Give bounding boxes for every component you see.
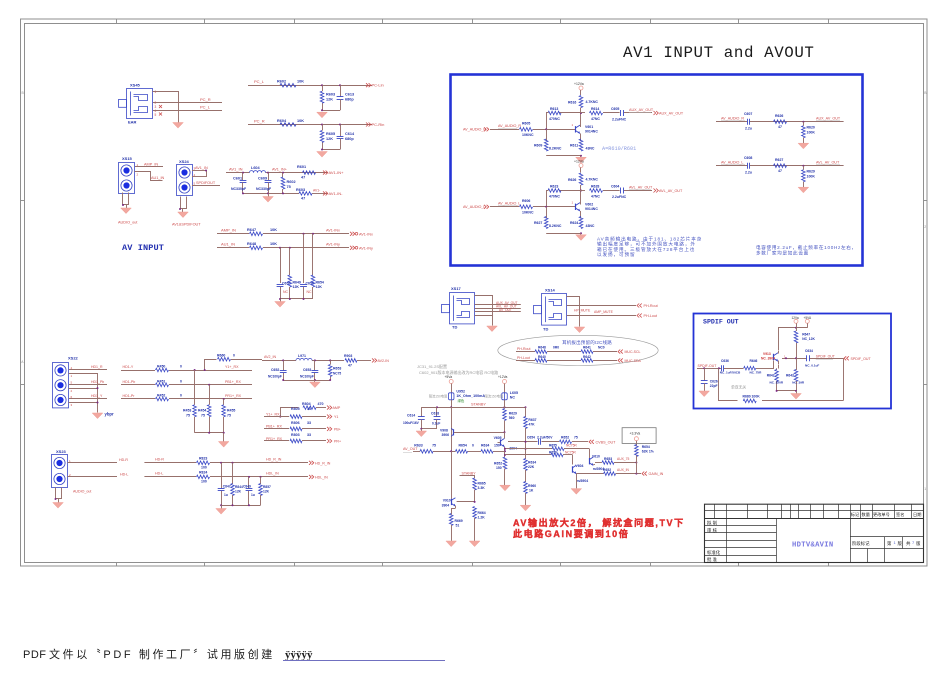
- svg-text:NC_12K: NC_12K: [802, 337, 815, 341]
- XS22 pin wires: [69, 366, 108, 413]
- svg-text:HD_R_IN: HD_R_IN: [266, 458, 282, 462]
- ground AV2 filter: [310, 380, 321, 388]
- gain note A=R610/R601: [602, 146, 636, 152]
- gray note spdif: [731, 385, 746, 390]
- svg-text:XS24: XS24: [179, 159, 190, 164]
- amplifier stage 2 (V602): [463, 159, 683, 240]
- port AV1-IN+: [323, 170, 344, 175]
- svg-text:AV_AUDIO_L: AV_AUDIO_L: [463, 205, 485, 209]
- title block left labels: [707, 520, 721, 564]
- capacitor C601 NC330pF: [231, 173, 247, 194]
- svg-text:HDTV&AVIN: HDTV&AVIN: [792, 542, 834, 550]
- svg-text:此电路GAIN要调到10倍: 此电路GAIN要调到10倍: [513, 528, 629, 539]
- svg-text:R669: R669: [455, 519, 463, 523]
- svg-text:AVL_AV_OUT: AVL_AV_OUT: [629, 186, 653, 190]
- svg-text:AUX_AV_OUT: AUX_AV_OUT: [659, 112, 684, 116]
- svg-text:R626: R626: [568, 178, 576, 182]
- ground R664: [469, 541, 480, 547]
- svg-text:R450: R450: [157, 365, 165, 369]
- svg-text:R616: R616: [568, 101, 576, 105]
- wire R656 row: [505, 450, 576, 456]
- svg-text:R451: R451: [157, 379, 165, 383]
- svg-text:C607: C607: [744, 112, 752, 116]
- green note: [458, 398, 465, 403]
- svg-text:47: 47: [778, 169, 782, 173]
- connector XS45 EAR jack: [119, 83, 153, 125]
- svg-text:R628: R628: [591, 185, 599, 189]
- resistor R647 NC_12K: [794, 328, 815, 359]
- svg-text:NC100pF: NC100pF: [268, 375, 282, 379]
- svg-text:PH-Lout: PH-Lout: [517, 356, 530, 360]
- wire SPDIFOUT: [192, 182, 220, 186]
- svg-text:批 准: 批 准: [707, 556, 718, 563]
- resistor R653b: [602, 457, 637, 464]
- svg-text:1: 1: [924, 487, 926, 491]
- svg-text:10KNC: 10KNC: [522, 211, 534, 215]
- resistor R643 NC_39R: [786, 358, 805, 391]
- label AV1&SPDIFOUT: [172, 223, 201, 227]
- wire V908 base row: [454, 431, 506, 433]
- svg-text:R680 100K: R680 100K: [743, 395, 761, 399]
- svg-text:10K: 10K: [297, 119, 304, 123]
- svg-text:SPDIF_OUT: SPDIF_OUT: [851, 357, 872, 361]
- svg-text:V601: V601: [585, 125, 593, 129]
- inductor L971: [296, 354, 312, 361]
- svg-text:AV2-IN: AV2-IN: [378, 359, 390, 363]
- svg-text:75: 75: [227, 414, 231, 418]
- svg-text:R609: R609: [534, 144, 542, 148]
- svg-text:HD1-Pb: HD1-Pb: [123, 380, 136, 384]
- svg-text:1: 1: [155, 90, 157, 94]
- label AMP_IN: [144, 162, 158, 166]
- svg-text:R804: R804: [302, 402, 311, 406]
- transistor V604: [572, 455, 588, 484]
- svg-text:C654: C654: [527, 436, 535, 440]
- svg-text:C653: C653: [303, 368, 311, 372]
- transistor V610: [589, 449, 604, 472]
- svg-text:NC75R: NC75R: [565, 450, 576, 454]
- svg-text:C604: C604: [611, 185, 619, 189]
- ground XS15: [121, 208, 132, 214]
- resistor R652 150 vert: [494, 451, 507, 485]
- svg-text:NC0: NC0: [598, 346, 605, 350]
- svg-text:R844: R844: [235, 485, 243, 489]
- svg-text:SPDIFOUT: SPDIFOUT: [196, 181, 216, 185]
- svg-text:STANBY: STANBY: [462, 471, 477, 475]
- wire PC_L from XS45: [153, 110, 222, 112]
- wire AV2 filter row: [262, 359, 344, 361]
- svg-text:AMP_MUTE: AMP_MUTE: [594, 310, 614, 314]
- svg-text:R903: R903: [344, 354, 352, 358]
- svg-text:R646: R646: [750, 359, 758, 363]
- svg-text:V910: V910: [443, 498, 451, 502]
- resistor R652 75: [560, 436, 578, 444]
- transistor V910: [442, 451, 456, 507]
- labels XS23 nets: [119, 458, 128, 476]
- footer yyyyy: [285, 649, 313, 661]
- svg-text:NC75: NC75: [333, 372, 341, 376]
- svg-text:R629: R629: [509, 412, 517, 416]
- gray note line2: [419, 369, 498, 375]
- svg-text:100K: 100K: [807, 131, 816, 135]
- labels XS17 nets: [496, 301, 518, 312]
- svg-text:1K_Ohm_100mA: 1K_Ohm_100mA: [456, 394, 485, 398]
- svg-text:R611: R611: [570, 144, 578, 148]
- label AV2_IN: [264, 355, 277, 359]
- svg-text:2.2uF/50V: 2.2uF/50V: [537, 436, 553, 440]
- svg-text:R603: R603: [296, 188, 305, 192]
- wire CVBS row: [508, 441, 588, 443]
- wire V604 emitter ground: [576, 474, 578, 489]
- footer underline: [283, 660, 445, 662]
- svg-text:10KNC: 10KNC: [522, 133, 534, 137]
- border frame outer: [21, 19, 928, 566]
- svg-text:AV1_IN+: AV1_IN+: [272, 167, 288, 171]
- capacitor C652 NC100pF: [268, 360, 287, 380]
- svg-text:审 核: 审 核: [707, 527, 718, 534]
- svg-text:C636: C636: [721, 359, 729, 363]
- resistor R634 150: [481, 444, 500, 454]
- svg-text:R823: R823: [199, 456, 207, 460]
- svg-text:Y1+_RX: Y1+_RX: [266, 412, 280, 416]
- svg-text:+12Va: +12Va: [574, 159, 584, 163]
- wire HD rail: [220, 504, 260, 506]
- svg-text:1u: 1u: [224, 493, 228, 497]
- resistor R646: [744, 359, 762, 375]
- wire R680 loop: [719, 359, 844, 401]
- caption AV INPUT: [122, 243, 164, 253]
- svg-text:SPDIF OUT: SPDIF OUT: [703, 319, 739, 326]
- svg-text:R454: R454: [198, 409, 206, 413]
- svg-text:SPDIF-OUT: SPDIF-OUT: [698, 364, 718, 368]
- svg-text:AV1-INy: AV1-INy: [326, 243, 340, 247]
- resistor R665 3.3K: [473, 478, 486, 502]
- resistor R654b 0: [456, 444, 475, 454]
- svg-text:XS15: XS15: [122, 156, 133, 161]
- wire AV1_IN filter row: [226, 172, 327, 174]
- svg-text:R824: R824: [199, 471, 207, 475]
- svg-text:R654: R654: [316, 281, 324, 285]
- svg-text:12K: 12K: [235, 490, 242, 494]
- row HD1-Pb (R451): [121, 379, 252, 386]
- svg-text:680p: 680p: [345, 98, 354, 102]
- svg-text:R653: R653: [604, 457, 612, 461]
- svg-text:150: 150: [496, 466, 502, 470]
- transistor V913: [761, 352, 786, 361]
- svg-text:AV输出放大2倍， 解扰盒问题,TV下: AV输出放大2倍， 解扰盒问题,TV下: [513, 517, 685, 528]
- XS23 ground wires: [55, 488, 62, 503]
- border frame inner: [25, 24, 924, 563]
- wire spdif bottom rail: [776, 390, 797, 392]
- capacitor C626 22pF: [701, 368, 718, 391]
- label AV1_IN+: [272, 167, 288, 171]
- svg-text:AV1-: AV1-: [313, 189, 320, 193]
- no-connect X pin5: [159, 113, 162, 116]
- svg-text:AV_AUDIO_R: AV_AUDIO_R: [498, 124, 521, 128]
- svg-text:标记: 标记: [851, 511, 860, 518]
- svg-text:0R0: 0R0: [553, 346, 559, 350]
- footer PDF text: [23, 647, 275, 661]
- label AUDIO_out XS23: [73, 490, 91, 494]
- svg-text:C634: C634: [805, 349, 813, 353]
- svg-text:9014NC: 9014NC: [585, 130, 598, 134]
- svg-text:HD-L: HD-L: [155, 472, 163, 476]
- svg-text:PC-Lin: PC-Lin: [372, 83, 384, 88]
- svg-text:SPDIF_OUT: SPDIF_OUT: [816, 354, 835, 358]
- svg-text:AVL_AV_OUT: AVL_AV_OUT: [659, 189, 683, 193]
- label SPDIF-OUT in: [698, 364, 718, 369]
- svg-text:3.3K: 3.3K: [478, 486, 486, 490]
- wire AV2 filter rail: [282, 379, 331, 381]
- svg-text:12K: 12K: [326, 137, 333, 141]
- svg-text:47NC: 47NC: [591, 195, 600, 199]
- svg-text:AUDIO_out: AUDIO_out: [118, 221, 138, 225]
- svg-text:100: 100: [201, 480, 207, 484]
- svg-text:R624: R624: [570, 221, 578, 225]
- label AUDIO_out XS15: [118, 221, 138, 225]
- svg-text:0.1uF: 0.1uF: [432, 422, 440, 426]
- svg-text:NC_820R: NC_820R: [770, 380, 784, 384]
- svg-text:NC_1uF/50CB: NC_1uF/50CB: [720, 371, 741, 375]
- svg-text:L605: L605: [510, 391, 518, 395]
- svg-text:AUX_AV_OUT: AUX_AV_OUT: [629, 108, 654, 112]
- gray note fuse: [429, 394, 448, 399]
- port PH-Rout: [637, 304, 658, 309]
- wire stub verticals: [281, 234, 313, 283]
- svg-text:V604: V604: [576, 464, 584, 468]
- capacitor C849 1u: [243, 477, 255, 505]
- svg-text:0: 0: [180, 379, 182, 383]
- svg-text:R643: R643: [786, 374, 794, 378]
- svg-text:43NC: 43NC: [586, 147, 595, 151]
- wire spdif out row: [782, 357, 843, 359]
- label PC_L: [200, 105, 211, 110]
- wire XS14 pin1 ground: [567, 297, 580, 327]
- label PC_R: [200, 97, 211, 102]
- label STANBY 2: [462, 471, 477, 475]
- svg-text:3906: 3906: [442, 433, 450, 437]
- connector XS17: [442, 286, 475, 330]
- inductor L604: [250, 166, 266, 173]
- svg-text:限流150电阻: 限流150电阻: [429, 394, 448, 399]
- svg-text:2.2uFNC: 2.2uFNC: [612, 118, 627, 122]
- terminator R455 75: [222, 399, 236, 433]
- svg-text:AMP_IN: AMP_IN: [221, 228, 236, 233]
- gray note bead: [485, 394, 504, 399]
- ground LC filter: [263, 193, 274, 202]
- resistor R844 12K: [231, 463, 243, 506]
- svg-text:R647: R647: [802, 333, 810, 337]
- labels XS22 nets: [91, 365, 104, 398]
- svg-text:C614: C614: [345, 132, 355, 136]
- svg-text:R605: R605: [326, 132, 335, 136]
- amplifier stage 1 (V601): [463, 82, 684, 163]
- svg-text:R603: R603: [326, 93, 335, 97]
- svg-text:PR1+_RX: PR1+_RX: [225, 394, 242, 398]
- svg-text:PB1+_RX: PB1+_RX: [225, 380, 241, 384]
- inductor L605 bead: [502, 391, 518, 400]
- fuse U952: [448, 390, 485, 400]
- svg-text:R455: R455: [227, 409, 235, 413]
- svg-text:HD1_R: HD1_R: [91, 365, 103, 369]
- label AV1_IN filter: [229, 166, 243, 171]
- label SPDIFOUT: [196, 181, 216, 185]
- svg-text:第: 第: [887, 540, 892, 547]
- svg-text:12K: 12K: [326, 98, 333, 102]
- resistor R603 47: [296, 188, 312, 201]
- svg-text:+3.3Va: +3.3Va: [630, 432, 641, 436]
- svg-text:R806: R806: [291, 421, 300, 425]
- svg-text:AV1_IN: AV1_IN: [229, 166, 243, 171]
- power +5VA spdif: [804, 316, 813, 328]
- svg-text:47: 47: [301, 197, 305, 201]
- svg-text:75: 75: [432, 444, 436, 448]
- port AV2-IN: [372, 358, 389, 363]
- svg-text:AV1&SPDIFOUT: AV1&SPDIFOUT: [172, 223, 201, 227]
- svg-text:R654: R654: [642, 445, 650, 449]
- connector XS15 RCA pair: [119, 156, 135, 194]
- svg-text:2.2u: 2.2u: [745, 171, 752, 175]
- ground AV rows: [275, 299, 286, 307]
- resistor R634b 22K vert: [524, 442, 537, 482]
- resistor R649 12K: [288, 275, 301, 299]
- svg-text:C608: C608: [744, 156, 752, 160]
- svg-text:C652: C652: [271, 368, 279, 372]
- wire bead down: [504, 400, 506, 409]
- svg-text:43NC: 43NC: [586, 224, 595, 228]
- svg-text:版: 版: [916, 540, 921, 547]
- svg-text:NC_0.1uF: NC_0.1uF: [805, 364, 819, 368]
- ground C626: [699, 391, 710, 397]
- svg-text:JC31_91.2S配置: JC31_91.2S配置: [417, 363, 447, 369]
- transistor V908 pnp: [440, 407, 454, 451]
- row HD1-Y (R450): [121, 365, 252, 372]
- label AV1_IN at XS24: [195, 166, 208, 170]
- power +12Va amp: [498, 375, 508, 393]
- svg-text:V602: V602: [585, 202, 593, 206]
- svg-text:47: 47: [348, 364, 352, 368]
- svg-text:R665: R665: [478, 482, 486, 486]
- svg-text:V908: V908: [440, 429, 448, 433]
- ground spdif: [791, 391, 802, 399]
- port AV1-IN-: [323, 191, 343, 196]
- svg-text:L971: L971: [298, 354, 306, 358]
- svg-text:R634: R634: [481, 444, 489, 448]
- svg-text:NC_3904: NC_3904: [761, 357, 775, 361]
- svg-text:R641: R641: [583, 346, 591, 350]
- row Y1 (R805 33): [264, 407, 338, 419]
- svg-text:R654: R654: [459, 444, 467, 448]
- svg-text:AU1_IN: AU1_IN: [221, 242, 235, 247]
- capacitor C634: [805, 349, 819, 368]
- svg-text:单双无关: 单双无关: [731, 385, 746, 390]
- svg-text:CVBS_OUT: CVBS_OUT: [596, 440, 617, 444]
- wire V913 emitter: [778, 361, 780, 369]
- svg-text:0: 0: [180, 365, 182, 369]
- svg-text:版: 版: [898, 540, 903, 547]
- power +5Va: [445, 375, 454, 393]
- ellipse I2C reserve: [498, 335, 658, 365]
- svg-text:R649: R649: [293, 281, 301, 285]
- svg-text:R601: R601: [297, 165, 306, 169]
- ground R669: [446, 541, 457, 547]
- svg-text:1K: 1K: [529, 489, 534, 493]
- row PB (R806 33): [264, 421, 341, 431]
- svg-text:R960: R960: [528, 484, 536, 488]
- svg-text:0: 0: [233, 354, 235, 358]
- svg-text:AUX_AV_OUT: AUX_AV_OUT: [816, 117, 841, 121]
- svg-text:R640: R640: [538, 355, 546, 359]
- svg-text:AV1_IN: AV1_IN: [195, 166, 208, 170]
- junctions AV rows: [279, 233, 314, 249]
- svg-text:U952: U952: [456, 390, 465, 394]
- svg-text:9014NC: 9014NC: [585, 207, 598, 211]
- svg-text:C609: C609: [258, 177, 267, 181]
- XS24 ground wires: [179, 197, 187, 213]
- svg-text:绿色: 绿色: [458, 398, 465, 403]
- svg-text:AVL_AV_OUT: AVL_AV_OUT: [816, 161, 840, 165]
- svg-text:R452: R452: [157, 394, 165, 398]
- svg-text:NC_39R: NC_39R: [792, 380, 805, 384]
- svg-text:C847: C847: [223, 485, 231, 489]
- svg-text:HD1_Pb: HD1_Pb: [91, 380, 104, 384]
- svg-text:共: 共: [906, 540, 911, 547]
- svg-text:R605: R605: [522, 122, 530, 126]
- svg-text:HD1-Pr: HD1-Pr: [123, 394, 136, 398]
- svg-text:PH-Rout: PH-Rout: [517, 347, 530, 351]
- svg-text:HD1_Y: HD1_Y: [91, 394, 103, 398]
- svg-text:51: 51: [456, 524, 460, 528]
- label SPDIF_OUT mid: [816, 354, 835, 359]
- ground V604: [571, 489, 582, 495]
- wire V605 collector emitter: [504, 432, 506, 451]
- svg-text:R857: R857: [263, 485, 271, 489]
- svg-text:470NC: 470NC: [549, 195, 560, 199]
- svg-text:AUDIO_out: AUDIO_out: [73, 490, 91, 494]
- XS45 pin numbers: [155, 90, 157, 117]
- svg-text:AU1_IN: AU1_IN: [151, 176, 165, 180]
- capacitor C655 NC: [277, 282, 291, 300]
- svg-text:10K: 10K: [270, 242, 277, 246]
- svg-text:R602: R602: [287, 180, 296, 184]
- svg-text:3904: 3904: [442, 504, 450, 508]
- red annotation line2: [513, 528, 629, 539]
- svg-text:PC_R: PC_R: [200, 97, 211, 102]
- XS15 ground wires: [122, 193, 129, 209]
- svg-text:NC100pF: NC100pF: [300, 375, 314, 379]
- XS23 pin wires: [67, 459, 117, 477]
- svg-text:GAIN_IN: GAIN_IN: [649, 472, 664, 476]
- svg-text:C849: C849: [243, 485, 251, 489]
- svg-text:R652: R652: [561, 436, 569, 440]
- svg-text:C614: C614: [407, 414, 415, 418]
- svg-text:签名: 签名: [896, 511, 904, 518]
- svg-text:10K: 10K: [297, 80, 304, 84]
- wire bottom rail AV rows: [279, 298, 313, 300]
- ground XS23: [53, 503, 64, 509]
- connector XS23 RCA pair: [52, 449, 68, 488]
- resistor R680 100K: [743, 395, 761, 403]
- svg-text:R637: R637: [528, 418, 536, 422]
- svg-text:PH-Rout: PH-Rout: [644, 304, 658, 308]
- capacitor C609 NC330pF: [256, 173, 272, 194]
- port GAIN_IN: [642, 472, 664, 477]
- wire AV1-IN- row: [242, 192, 327, 194]
- svg-text:150: 150: [494, 444, 500, 448]
- ground XS14: [574, 327, 585, 333]
- svg-text:PH-Lout: PH-Lout: [644, 314, 658, 318]
- svg-text:TD: TD: [543, 327, 548, 332]
